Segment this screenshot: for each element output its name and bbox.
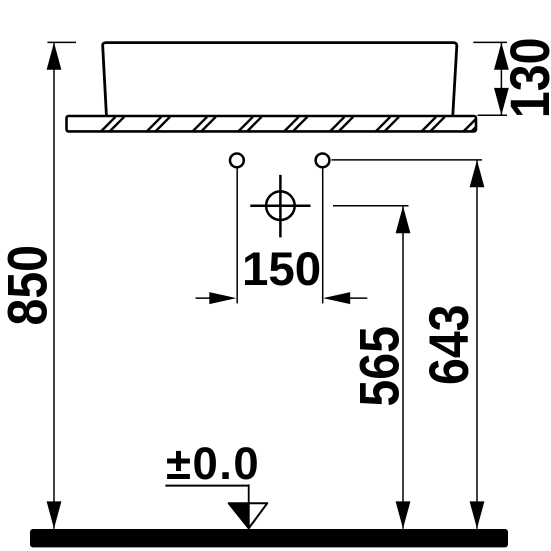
datum underline <box>165 485 248 487</box>
dim 150 left arrow (points right) <box>209 292 236 304</box>
dim 850 line <box>53 42 55 528</box>
hatch pair 6 <box>330 117 353 132</box>
svg-text:643: 643 <box>417 305 480 386</box>
dim 130 extension line bottom <box>478 114 508 116</box>
dim 850 arrow up <box>47 43 62 70</box>
hatch corner right <box>464 119 476 131</box>
hole centerline left <box>236 168 238 304</box>
dim 643 arrow up <box>470 160 485 187</box>
dim 565 arrow up <box>396 206 411 233</box>
dim 565 line <box>402 206 404 529</box>
dim 643 line <box>476 160 478 529</box>
dim 130 line <box>500 42 502 115</box>
svg-text:850: 850 <box>0 245 59 326</box>
datum triangle filled half <box>229 503 249 528</box>
dim 850 extension line top <box>47 41 76 43</box>
dim 150 left tail <box>196 297 212 299</box>
countertop strip <box>67 116 477 131</box>
dim 565 extension line top <box>333 205 409 207</box>
dim 130 arrow up <box>494 43 509 70</box>
svg-text:130: 130 <box>498 38 551 119</box>
crosshair horizontal <box>250 204 310 207</box>
hatch pair 2 <box>147 117 170 132</box>
svg-text:565: 565 <box>348 326 411 407</box>
dim 150 right arrow (points left) <box>323 292 350 304</box>
hatch pair 4 <box>238 117 261 132</box>
crosshair vertical <box>279 175 282 238</box>
hatch pair 7 <box>376 117 399 132</box>
dim 130 extension line top <box>473 41 507 43</box>
svg-text:±0.0: ±0.0 <box>166 438 260 489</box>
dim 150 right tail <box>348 297 368 299</box>
dim 130 arrow down <box>494 88 509 115</box>
dim 643 extension line top <box>332 159 483 161</box>
floor bar <box>30 529 508 547</box>
datum triangle outline <box>229 503 268 528</box>
datum triangle center line <box>248 503 250 528</box>
fixing hole left <box>230 154 244 168</box>
fixing hole right <box>316 154 330 168</box>
tap hole crosshair circle <box>266 191 295 220</box>
datum leader <box>248 484 250 504</box>
basin outline <box>103 43 457 115</box>
hole centerline right <box>322 168 324 304</box>
hatch pair 8 <box>422 117 445 132</box>
dim 565 arrow down <box>396 501 411 528</box>
hatch pair 1 <box>101 117 124 132</box>
hatch pair 3 <box>193 117 216 132</box>
hatch pair 5 <box>284 117 307 132</box>
dim 643 arrow down <box>470 501 485 528</box>
svg-text:150: 150 <box>242 243 321 296</box>
dim 850 arrow down <box>47 501 62 528</box>
